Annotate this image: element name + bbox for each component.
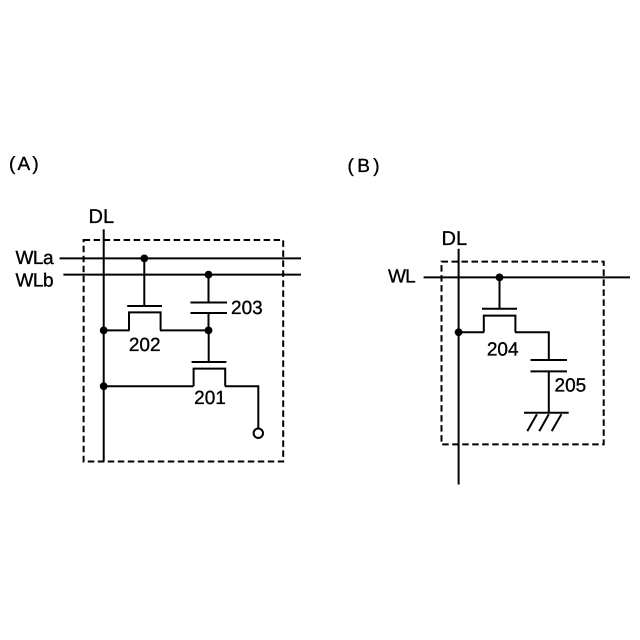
transistor 202 channel/source/drain	[129, 312, 161, 330]
svg-text:205: 205	[555, 375, 587, 396]
svg-text:DL: DL	[89, 206, 115, 228]
junction dot WLa to gate of 202	[140, 255, 148, 263]
junction dot DL and source of 202	[100, 327, 108, 335]
junction dot DL and source of 204	[455, 328, 463, 336]
transistor 201 channel/source/drain	[194, 369, 226, 387]
capacitor 205 top plate	[531, 359, 568, 361]
junction dot WL to gate of 204	[496, 274, 504, 282]
junction dot WLb to capacitor 203	[205, 271, 213, 279]
cell boundary dashed box (figure B)	[442, 262, 604, 445]
wire drain of 202 to node under 203	[160, 329, 209, 331]
wire DL to source of 201	[104, 385, 194, 387]
wire DL to source of 204	[459, 331, 484, 333]
capacitor 203 bottom plate	[191, 312, 228, 314]
capacitor 205 bottom plate	[531, 370, 568, 372]
junction dot DL and source of 201	[100, 382, 108, 390]
wire WLb to top plate of 203	[208, 275, 210, 303]
cell boundary dashed box (figure A)	[84, 240, 284, 462]
capacitor 203 top plate	[191, 302, 228, 304]
wire WLa word line horizontal	[60, 257, 301, 259]
wire gate of transistor 202	[143, 258, 145, 306]
wire DL data line vertical (figure B)	[458, 249, 460, 485]
wire drain of 201 to output terminal	[225, 386, 258, 428]
ground symbol bar	[524, 412, 569, 414]
svg-text:DL: DL	[442, 228, 468, 250]
open circle output terminal	[254, 429, 263, 438]
transistor 204 gate electrode bar	[482, 308, 517, 310]
wire gate of transistor 204	[499, 277, 501, 308]
svg-text:(B): (B)	[348, 156, 384, 177]
svg-text:202: 202	[129, 335, 161, 356]
wire bottom plate of 203 to node	[208, 313, 210, 330]
ground symbol hatch stroke 2	[539, 414, 549, 431]
transistor 201 gate electrode bar	[192, 361, 227, 363]
svg-text:WLa: WLa	[16, 248, 55, 269]
wire DL to source of 202	[104, 329, 130, 331]
transistor 202 gate electrode bar	[127, 305, 162, 307]
transistor 204 channel/source/drain	[484, 316, 516, 333]
svg-text:WLb: WLb	[16, 270, 54, 291]
wire bottom plate of 205 to ground	[548, 371, 550, 412]
wire WLb word line horizontal	[63, 274, 301, 276]
junction dot node of 203 and gate of 201	[205, 327, 213, 335]
ground symbol hatch stroke 3	[552, 414, 562, 431]
ground symbol hatch stroke 1	[527, 414, 537, 431]
wire gate of transistor 201	[208, 330, 210, 362]
svg-text:(A): (A)	[9, 154, 41, 175]
svg-text:WL: WL	[388, 267, 415, 288]
svg-text:204: 204	[487, 339, 519, 360]
svg-text:201: 201	[194, 388, 226, 409]
wire WL word line horizontal	[424, 276, 630, 278]
svg-text:203: 203	[231, 298, 263, 319]
wire drain of 204 to capacitor 205	[515, 332, 549, 360]
wire DL data line vertical (figure A)	[103, 229, 105, 461]
